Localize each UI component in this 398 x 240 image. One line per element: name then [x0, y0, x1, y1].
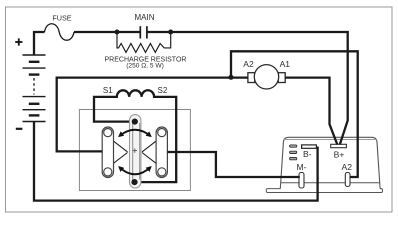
svg-text:MAIN: MAIN [135, 13, 155, 22]
svg-text:A2: A2 [342, 162, 353, 172]
left contact capsule [102, 127, 113, 178]
battery short plates [29, 62, 40, 116]
plunger top node [132, 119, 138, 125]
svg-text:B-: B- [303, 149, 312, 159]
M- wire from right contact to controller [167, 152, 299, 177]
wire fuse to main row then down to controller B+ [74, 32, 348, 145]
plus terminal label [15, 38, 22, 45]
junction node A [115, 30, 120, 35]
svg-text:(250 Ω, 5 W): (250 Ω, 5 W) [126, 63, 164, 70]
plus mark on plunger [133, 148, 137, 152]
plunger bar [130, 115, 141, 188]
controller vent slits [290, 145, 297, 160]
plunger bottom node [131, 179, 137, 185]
controller B- terminal bar [302, 145, 317, 148]
svg-text:M-: M- [297, 162, 307, 172]
wire battery+ up to fuse row [34, 32, 45, 55]
fuse F1 [45, 24, 75, 41]
rotation arrow bottom [119, 167, 150, 174]
svg-text:S2: S2 [158, 86, 168, 95]
controller box [280, 137, 380, 188]
battery dashed continuation [33, 78, 35, 95]
wire battery side to motor A2 and left contact [57, 78, 248, 152]
contactor assembly outer case [79, 110, 190, 191]
controller base plate [266, 189, 382, 193]
right contact capsule [156, 127, 167, 178]
junction node B [168, 30, 173, 35]
controller box inner top edge [284, 139, 377, 141]
controller box bottom rim [281, 182, 380, 184]
battery long plates [23, 55, 46, 122]
motor M1 [248, 65, 285, 89]
battery negative wire to controller B- [34, 122, 318, 201]
rotation arrow top [119, 130, 150, 136]
svg-text:B+: B+ [334, 149, 345, 159]
crossbar linkage diagonals [112, 140, 159, 165]
controller B+ terminal bar [331, 144, 347, 147]
main contactor switch MAIN [135, 13, 155, 38]
controller M- terminal [299, 173, 304, 189]
svg-text:FUSE: FUSE [52, 13, 71, 22]
battery BT1 [15, 38, 45, 128]
solenoid coil S1-S2 [94, 90, 176, 182]
wire from node above motor to controller A2 terminal [231, 51, 358, 177]
svg-text:A1: A1 [280, 59, 291, 69]
precharge resistor R1 [117, 32, 171, 52]
wire motor A1 to controller B+ [285, 78, 337, 145]
svg-text:A2: A2 [243, 59, 254, 69]
minus terminal label [16, 128, 23, 130]
svg-text:S1: S1 [103, 86, 113, 95]
controller A2 terminal [345, 173, 350, 187]
junction node above motor A2 [229, 75, 234, 80]
